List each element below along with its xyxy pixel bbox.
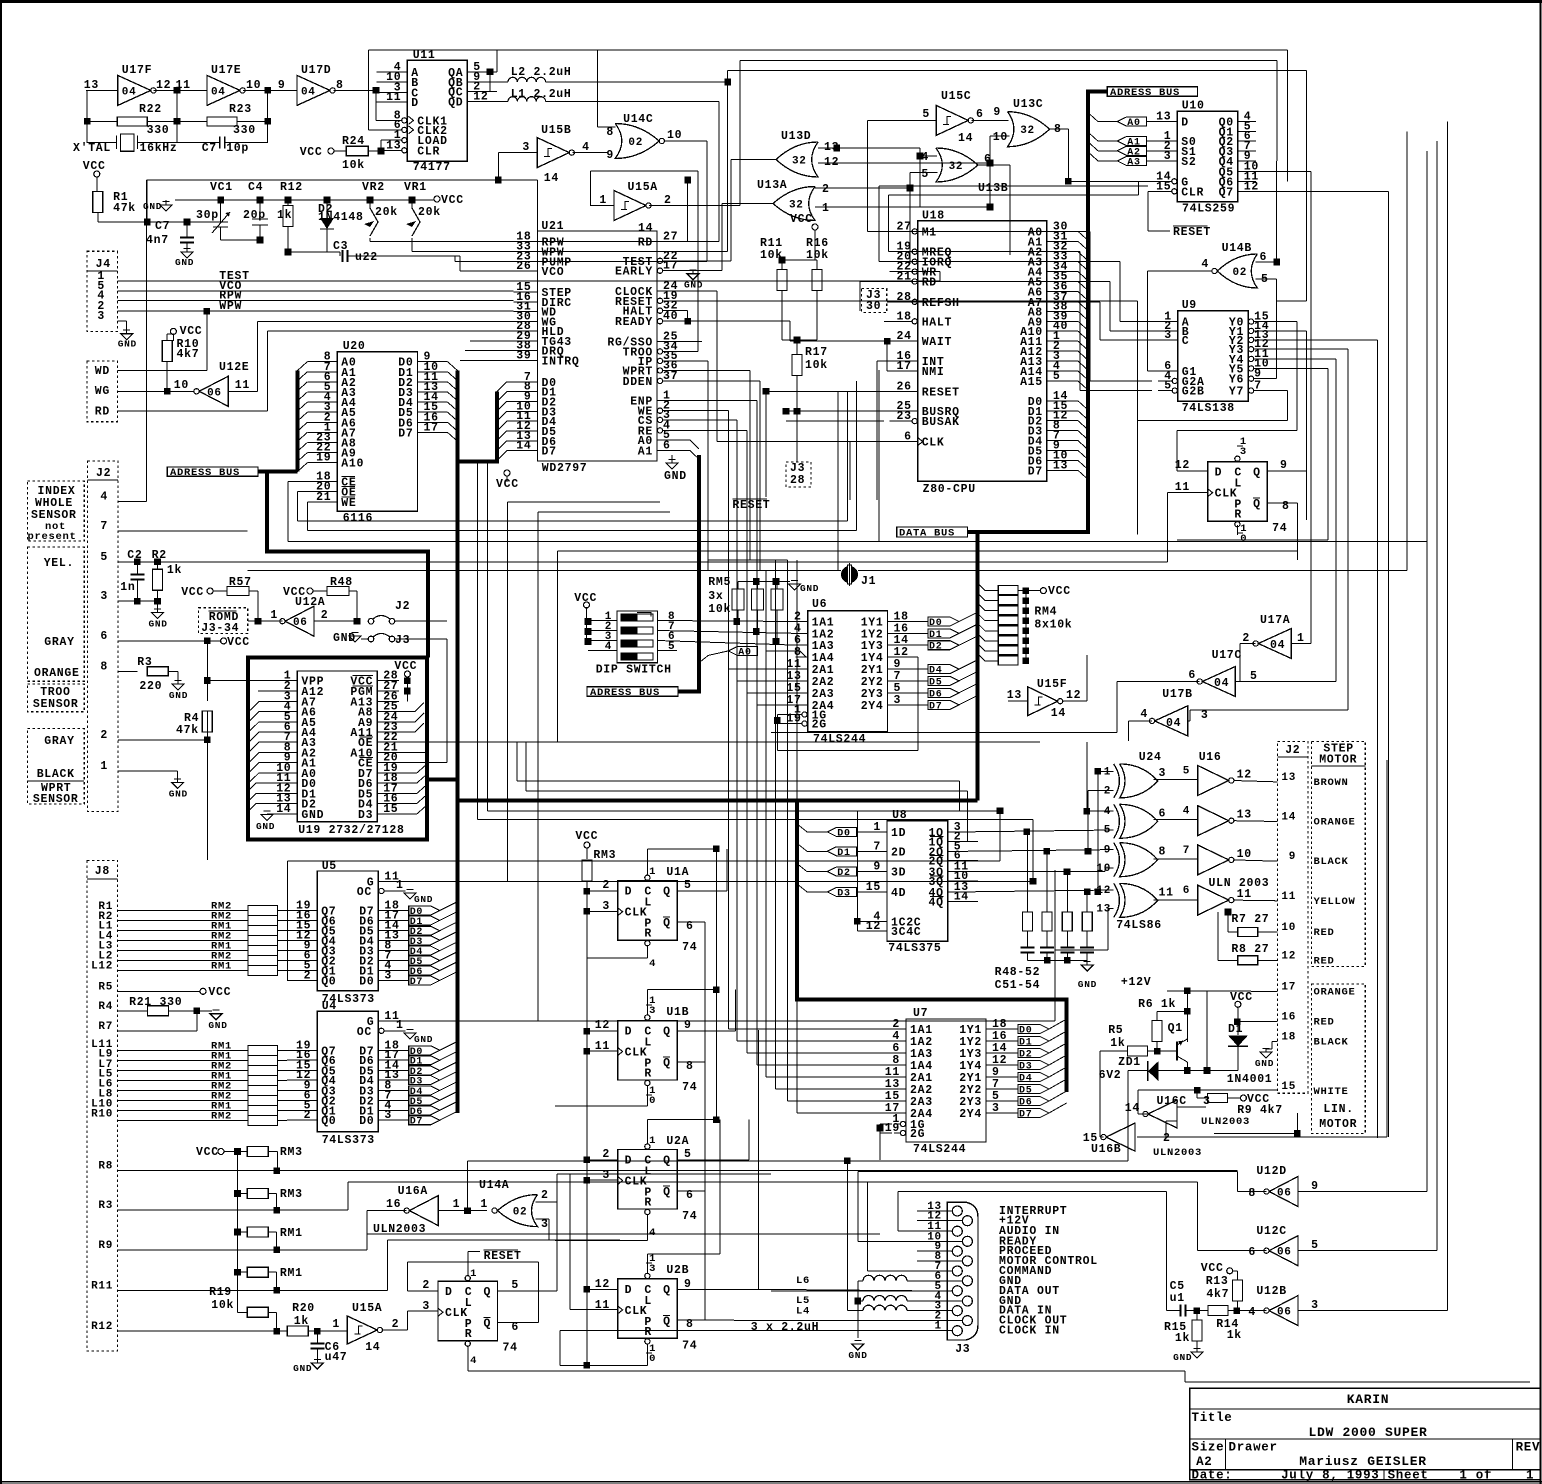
svg-text:D0: D0 bbox=[929, 618, 942, 629]
svg-text:U17E: U17E bbox=[211, 64, 241, 77]
svg-text:Title: Title bbox=[1192, 1411, 1233, 1425]
svg-text:+12V: +12V bbox=[1121, 976, 1151, 989]
svg-text:U12D: U12D bbox=[1256, 1165, 1286, 1178]
svg-text:u22: u22 bbox=[355, 251, 378, 264]
svg-text:D5: D5 bbox=[1019, 1086, 1032, 1097]
svg-text:R: R bbox=[644, 1197, 652, 1210]
svg-text:VCC: VCC bbox=[180, 325, 203, 338]
svg-text:G2B: G2B bbox=[1182, 386, 1205, 399]
svg-text:3x: 3x bbox=[708, 590, 723, 603]
svg-text:02: 02 bbox=[513, 1207, 528, 1219]
svg-text:5: 5 bbox=[668, 641, 675, 653]
svg-text:U13A: U13A bbox=[757, 179, 787, 192]
svg-text:GND: GND bbox=[208, 1020, 227, 1031]
svg-text:2: 2 bbox=[541, 1189, 549, 1202]
svg-text:GND: GND bbox=[301, 809, 324, 822]
svg-text:RD: RD bbox=[95, 406, 110, 419]
svg-text:U5: U5 bbox=[322, 860, 337, 873]
svg-text:3: 3 bbox=[649, 1263, 656, 1275]
svg-text:10k: 10k bbox=[708, 603, 731, 616]
svg-text:5: 5 bbox=[1164, 380, 1172, 393]
svg-text:D0: D0 bbox=[359, 1115, 374, 1128]
svg-text:U16C: U16C bbox=[1157, 1095, 1187, 1108]
svg-text:GND: GND bbox=[664, 470, 687, 483]
svg-text:ORANGE: ORANGE bbox=[1314, 817, 1356, 829]
svg-text:WE: WE bbox=[341, 497, 356, 510]
svg-text:06: 06 bbox=[1277, 1247, 1292, 1259]
svg-text:D1: D1 bbox=[1019, 1038, 1032, 1049]
svg-text:July 8, 1993: July 8, 1993 bbox=[1281, 1469, 1379, 1483]
svg-text:13: 13 bbox=[1237, 809, 1252, 822]
svg-text:R19: R19 bbox=[209, 1286, 232, 1299]
svg-text:8: 8 bbox=[1282, 500, 1290, 513]
svg-text:18: 18 bbox=[1281, 1032, 1296, 1044]
svg-text:Drawer: Drawer bbox=[1229, 1441, 1278, 1455]
svg-text:GRAY: GRAY bbox=[44, 735, 74, 748]
svg-text:26: 26 bbox=[896, 380, 911, 393]
svg-text:11: 11 bbox=[386, 91, 401, 104]
svg-text:GND: GND bbox=[800, 583, 819, 594]
svg-text:R21 330: R21 330 bbox=[129, 996, 182, 1009]
svg-text:3C4C: 3C4C bbox=[891, 926, 921, 939]
svg-text:L12: L12 bbox=[91, 960, 113, 972]
svg-text:04: 04 bbox=[1166, 717, 1181, 730]
svg-text:1k: 1k bbox=[1110, 1037, 1125, 1050]
svg-text:D: D bbox=[1181, 117, 1189, 130]
svg-text:Q: Q bbox=[663, 917, 671, 930]
svg-text:10: 10 bbox=[1237, 848, 1252, 861]
svg-text:READY: READY bbox=[615, 316, 653, 329]
svg-text:DDEN: DDEN bbox=[623, 376, 653, 389]
svg-text:23: 23 bbox=[896, 410, 911, 423]
svg-text:U15A: U15A bbox=[628, 181, 658, 194]
svg-text:RM1: RM1 bbox=[280, 1267, 303, 1280]
svg-text:74LS86: 74LS86 bbox=[1116, 919, 1162, 932]
svg-text:J3: J3 bbox=[395, 634, 410, 647]
svg-text:D5: D5 bbox=[929, 677, 942, 688]
svg-text:3: 3 bbox=[1201, 709, 1209, 722]
svg-text:7: 7 bbox=[1183, 845, 1190, 857]
svg-text:15: 15 bbox=[1083, 1132, 1098, 1145]
svg-text:MOTOR: MOTOR bbox=[1319, 1118, 1357, 1131]
svg-text:2: 2 bbox=[422, 1279, 430, 1292]
svg-text:U15C: U15C bbox=[941, 90, 971, 103]
svg-text:14: 14 bbox=[638, 222, 653, 235]
svg-text:L1 2.2uH: L1 2.2uH bbox=[511, 88, 572, 101]
svg-text:R9: R9 bbox=[98, 1240, 113, 1252]
svg-text:74: 74 bbox=[1272, 522, 1287, 535]
svg-text:ULN 2003: ULN 2003 bbox=[1209, 877, 1270, 890]
svg-text:RM3: RM3 bbox=[280, 1146, 303, 1159]
svg-text:GND: GND bbox=[149, 619, 168, 630]
svg-text:4: 4 bbox=[470, 1355, 477, 1367]
svg-text:6: 6 bbox=[1248, 1246, 1256, 1259]
svg-text:J8: J8 bbox=[95, 865, 110, 878]
svg-text:U24: U24 bbox=[1139, 751, 1162, 764]
svg-text:D: D bbox=[1215, 467, 1223, 480]
svg-text:A10: A10 bbox=[341, 458, 364, 471]
svg-text:R8 27: R8 27 bbox=[1231, 943, 1269, 956]
svg-text:4: 4 bbox=[582, 141, 590, 154]
svg-text:R13: R13 bbox=[1206, 1275, 1229, 1288]
svg-text:U1A: U1A bbox=[666, 866, 689, 879]
svg-text:WD: WD bbox=[95, 365, 110, 378]
svg-text:BLACK: BLACK bbox=[1314, 1037, 1349, 1049]
svg-text:Q: Q bbox=[663, 1026, 671, 1039]
svg-text:J1: J1 bbox=[861, 575, 876, 588]
svg-text:1: 1 bbox=[1104, 766, 1111, 778]
svg-text:15: 15 bbox=[1156, 180, 1171, 193]
svg-text:06: 06 bbox=[1277, 1307, 1292, 1319]
svg-text:6: 6 bbox=[1159, 807, 1167, 820]
svg-text:8: 8 bbox=[1248, 1187, 1256, 1200]
svg-text:Q0: Q0 bbox=[321, 1115, 336, 1128]
svg-text:Mariusz GEISLER: Mariusz GEISLER bbox=[1299, 1454, 1427, 1469]
svg-text:13: 13 bbox=[1096, 904, 1111, 916]
svg-text:u47: u47 bbox=[325, 1351, 348, 1364]
svg-text:4n7: 4n7 bbox=[146, 234, 169, 247]
svg-text:U2B: U2B bbox=[666, 1264, 689, 1277]
svg-text:0: 0 bbox=[649, 1353, 656, 1365]
svg-text:10: 10 bbox=[174, 379, 189, 392]
svg-text:3: 3 bbox=[522, 141, 530, 154]
svg-text:GND: GND bbox=[414, 1034, 433, 1045]
svg-text:4: 4 bbox=[649, 958, 656, 970]
svg-text:5: 5 bbox=[1311, 1239, 1319, 1252]
svg-text:D1: D1 bbox=[929, 630, 942, 641]
svg-text:CLR: CLR bbox=[1181, 186, 1204, 199]
svg-text:OC: OC bbox=[357, 1026, 372, 1039]
svg-text:VCC: VCC bbox=[227, 636, 250, 649]
svg-text:16kHz: 16kHz bbox=[140, 142, 178, 155]
svg-text:RD: RD bbox=[922, 277, 937, 290]
svg-text:04: 04 bbox=[211, 86, 226, 98]
svg-text:15: 15 bbox=[1281, 1081, 1296, 1093]
svg-text:330: 330 bbox=[233, 124, 256, 137]
svg-text:D7: D7 bbox=[410, 1117, 423, 1128]
svg-text:39: 39 bbox=[516, 350, 531, 363]
svg-text:D3: D3 bbox=[1019, 1062, 1032, 1073]
svg-text:4: 4 bbox=[1201, 258, 1209, 271]
svg-text:R6 1k: R6 1k bbox=[1138, 998, 1176, 1011]
svg-text:GRAY: GRAY bbox=[44, 636, 74, 649]
svg-text:REV: REV bbox=[1516, 1441, 1541, 1455]
svg-text:3: 3 bbox=[1159, 767, 1167, 780]
svg-text:06: 06 bbox=[293, 617, 308, 629]
svg-text:U19 2732/27128: U19 2732/27128 bbox=[298, 824, 404, 837]
svg-text:ULN2003: ULN2003 bbox=[1201, 1116, 1250, 1128]
svg-text:04: 04 bbox=[122, 86, 137, 98]
svg-text:3: 3 bbox=[1203, 1095, 1211, 1108]
svg-text:12: 12 bbox=[1237, 769, 1252, 782]
svg-text:R3: R3 bbox=[98, 1200, 113, 1212]
svg-text:74LS375: 74LS375 bbox=[888, 942, 941, 955]
svg-text:GND: GND bbox=[1255, 1058, 1274, 1069]
svg-text:6: 6 bbox=[1188, 669, 1196, 682]
svg-text:2: 2 bbox=[304, 1109, 312, 1122]
svg-text:SENSOR: SENSOR bbox=[33, 793, 79, 806]
svg-text:R11: R11 bbox=[91, 1280, 113, 1292]
svg-text:RED: RED bbox=[1314, 927, 1335, 939]
svg-text:8: 8 bbox=[1159, 846, 1167, 859]
svg-text:A0: A0 bbox=[1127, 118, 1140, 129]
svg-text:D7: D7 bbox=[542, 446, 557, 459]
svg-text:1: 1 bbox=[270, 609, 278, 622]
svg-text:26: 26 bbox=[516, 260, 531, 273]
svg-text:12: 12 bbox=[1175, 459, 1190, 472]
svg-text:1: 1 bbox=[934, 1321, 941, 1333]
svg-text:10k: 10k bbox=[342, 159, 365, 172]
svg-text:1D: 1D bbox=[891, 827, 906, 840]
svg-text:Size: Size bbox=[1192, 1441, 1225, 1455]
svg-text:5: 5 bbox=[922, 108, 930, 121]
svg-text:M1: M1 bbox=[922, 226, 937, 239]
svg-text:VCC: VCC bbox=[181, 586, 204, 599]
svg-text:9: 9 bbox=[1104, 845, 1111, 857]
svg-text:1: 1 bbox=[332, 1318, 340, 1331]
svg-text:12: 12 bbox=[1066, 689, 1081, 702]
svg-text:RESET: RESET bbox=[484, 1250, 522, 1263]
svg-text:U4: U4 bbox=[322, 1000, 337, 1013]
svg-text:U10: U10 bbox=[1182, 100, 1205, 113]
svg-text:6116: 6116 bbox=[343, 512, 373, 525]
svg-text:5: 5 bbox=[1183, 766, 1190, 778]
svg-text:3: 3 bbox=[100, 590, 108, 603]
svg-text:U17A: U17A bbox=[1260, 614, 1290, 627]
svg-text:VCC: VCC bbox=[196, 1146, 219, 1159]
svg-text:VCC: VCC bbox=[575, 830, 598, 843]
svg-text:U18: U18 bbox=[922, 210, 945, 223]
svg-text:R7 27: R7 27 bbox=[1231, 913, 1269, 926]
svg-text:R17: R17 bbox=[805, 346, 828, 359]
svg-text:16: 16 bbox=[1281, 1012, 1296, 1024]
svg-text:8: 8 bbox=[606, 126, 614, 139]
svg-text:74: 74 bbox=[682, 1081, 697, 1094]
svg-text:15: 15 bbox=[383, 803, 398, 816]
svg-text:D3: D3 bbox=[358, 809, 373, 822]
svg-text:19: 19 bbox=[316, 452, 331, 465]
svg-text:14: 14 bbox=[958, 132, 973, 145]
svg-text:R: R bbox=[644, 928, 652, 941]
svg-text:EARLY: EARLY bbox=[615, 266, 653, 279]
svg-text:VR2: VR2 bbox=[362, 181, 385, 194]
svg-text:WG: WG bbox=[95, 385, 110, 398]
svg-text:11: 11 bbox=[1237, 888, 1252, 901]
svg-text:32: 32 bbox=[1020, 125, 1035, 137]
svg-text:R8: R8 bbox=[98, 1161, 113, 1173]
svg-text:10: 10 bbox=[1281, 922, 1296, 934]
svg-text:U12E: U12E bbox=[219, 361, 249, 374]
svg-text:4: 4 bbox=[1140, 708, 1148, 721]
svg-text:Q: Q bbox=[663, 1315, 671, 1328]
svg-text:4: 4 bbox=[100, 491, 108, 504]
svg-text:L6: L6 bbox=[796, 1275, 810, 1287]
svg-text:Q7: Q7 bbox=[1219, 186, 1234, 199]
svg-text:0: 0 bbox=[1240, 533, 1247, 545]
svg-text:DATA BUS: DATA BUS bbox=[899, 528, 955, 540]
svg-text:BLACK: BLACK bbox=[1314, 856, 1349, 868]
svg-text:5: 5 bbox=[684, 879, 692, 892]
svg-text:3: 3 bbox=[992, 1102, 1000, 1115]
svg-text:VC1: VC1 bbox=[210, 181, 233, 194]
svg-text:WD2797: WD2797 bbox=[542, 462, 588, 475]
svg-text:C7: C7 bbox=[202, 142, 217, 155]
svg-text:U14C: U14C bbox=[623, 113, 653, 126]
svg-text:U14A: U14A bbox=[479, 1179, 509, 1192]
svg-text:13: 13 bbox=[1281, 772, 1296, 784]
svg-text:J2: J2 bbox=[96, 467, 111, 480]
svg-text:12: 12 bbox=[595, 1019, 610, 1032]
svg-text:GND: GND bbox=[1173, 1352, 1192, 1363]
svg-text:U20: U20 bbox=[343, 340, 366, 353]
svg-text:Q: Q bbox=[1253, 467, 1261, 480]
svg-text:D: D bbox=[445, 1286, 453, 1299]
svg-text:16: 16 bbox=[386, 1198, 401, 1211]
svg-text:GND: GND bbox=[175, 257, 194, 268]
svg-text:C7: C7 bbox=[155, 220, 170, 233]
svg-text:WHITE: WHITE bbox=[1314, 1086, 1349, 1098]
svg-text:RED: RED bbox=[1314, 955, 1335, 967]
svg-text:C3: C3 bbox=[333, 240, 348, 253]
svg-text:D3: D3 bbox=[837, 888, 850, 899]
svg-text:14: 14 bbox=[276, 803, 291, 816]
svg-text:1: 1 bbox=[480, 1198, 488, 1211]
svg-text:GND: GND bbox=[684, 280, 703, 291]
svg-text:VCC: VCC bbox=[1048, 585, 1071, 598]
svg-text:3: 3 bbox=[422, 1300, 430, 1313]
svg-text:10k: 10k bbox=[211, 1299, 234, 1312]
svg-text:R5: R5 bbox=[98, 981, 113, 993]
svg-text:J2: J2 bbox=[1285, 744, 1300, 757]
svg-text:2G: 2G bbox=[910, 1128, 925, 1141]
svg-text:D: D bbox=[625, 1026, 633, 1039]
svg-text:10k: 10k bbox=[805, 359, 828, 372]
svg-text:ULN2003: ULN2003 bbox=[1153, 1147, 1202, 1159]
svg-text:1: 1 bbox=[1526, 1469, 1534, 1483]
svg-text:3: 3 bbox=[97, 310, 105, 323]
svg-text:J2: J2 bbox=[395, 600, 410, 613]
svg-text:2: 2 bbox=[1104, 786, 1111, 798]
svg-text:D7: D7 bbox=[398, 427, 413, 440]
svg-text:VCC: VCC bbox=[574, 592, 597, 605]
svg-text:J3-34: J3-34 bbox=[201, 622, 239, 635]
svg-text:15: 15 bbox=[866, 881, 881, 894]
svg-text:74: 74 bbox=[682, 1339, 697, 1352]
svg-text:R22: R22 bbox=[139, 103, 162, 116]
svg-text:Q: Q bbox=[663, 1155, 671, 1168]
svg-text:D7: D7 bbox=[410, 977, 423, 988]
svg-text:C4: C4 bbox=[248, 181, 263, 194]
svg-text:A2: A2 bbox=[1196, 1455, 1212, 1469]
svg-text:D7: D7 bbox=[1028, 465, 1043, 478]
svg-text:2: 2 bbox=[392, 1318, 400, 1331]
svg-text:CLK: CLK bbox=[922, 437, 945, 450]
svg-text:4Q: 4Q bbox=[928, 896, 943, 909]
svg-text:A3: A3 bbox=[1127, 157, 1140, 168]
svg-text:R5: R5 bbox=[1108, 1024, 1123, 1037]
svg-text:D4: D4 bbox=[1019, 1074, 1032, 1085]
svg-text:D6: D6 bbox=[929, 689, 942, 700]
svg-text:11: 11 bbox=[1281, 891, 1296, 903]
svg-text:D7: D7 bbox=[1019, 1110, 1032, 1121]
svg-text:R: R bbox=[644, 1068, 652, 1081]
svg-text:GND: GND bbox=[1078, 979, 1097, 990]
svg-text:2: 2 bbox=[100, 729, 108, 742]
svg-text:8: 8 bbox=[100, 660, 108, 673]
svg-text:S2: S2 bbox=[1181, 156, 1196, 169]
svg-text:ORANGE: ORANGE bbox=[34, 667, 80, 680]
svg-text:BROWN: BROWN bbox=[1314, 777, 1349, 789]
svg-text:GND: GND bbox=[169, 690, 188, 701]
svg-text:R10: R10 bbox=[91, 1108, 113, 1120]
svg-text:R: R bbox=[644, 1326, 652, 1339]
svg-text:C51-54: C51-54 bbox=[995, 979, 1041, 992]
svg-text:28: 28 bbox=[790, 474, 805, 487]
svg-text:U11: U11 bbox=[413, 49, 436, 62]
svg-text:VCC: VCC bbox=[441, 194, 464, 207]
svg-text:6: 6 bbox=[1183, 885, 1190, 897]
svg-text:4: 4 bbox=[605, 641, 612, 653]
svg-text:10: 10 bbox=[993, 131, 1008, 144]
svg-text:17: 17 bbox=[424, 421, 439, 434]
svg-text:2: 2 bbox=[822, 183, 830, 196]
svg-text:1k: 1k bbox=[1227, 1329, 1242, 1342]
svg-text:L4: L4 bbox=[796, 1306, 810, 1318]
svg-text:D: D bbox=[411, 97, 419, 110]
svg-text:ADRESS BUS: ADRESS BUS bbox=[170, 467, 240, 479]
svg-text:VCC: VCC bbox=[208, 986, 231, 999]
svg-text:2: 2 bbox=[304, 969, 312, 982]
svg-text:5: 5 bbox=[100, 551, 108, 564]
svg-text:U16: U16 bbox=[1199, 751, 1222, 764]
svg-text:10: 10 bbox=[667, 129, 682, 142]
svg-text:14: 14 bbox=[1281, 812, 1296, 824]
svg-text:R12: R12 bbox=[91, 1321, 113, 1333]
svg-text:14: 14 bbox=[516, 440, 531, 453]
svg-text:D: D bbox=[625, 1155, 633, 1168]
svg-text:1: 1 bbox=[873, 821, 881, 834]
svg-text:5: 5 bbox=[1104, 825, 1111, 837]
svg-text:SENSOR: SENSOR bbox=[33, 698, 79, 711]
svg-text:5: 5 bbox=[1053, 370, 1061, 383]
svg-text:R48-52: R48-52 bbox=[995, 966, 1041, 979]
svg-text:U15A: U15A bbox=[352, 1302, 382, 1315]
svg-text:R24: R24 bbox=[342, 135, 365, 148]
svg-text:11: 11 bbox=[1175, 481, 1190, 494]
svg-text:47k: 47k bbox=[176, 724, 199, 737]
svg-text:D2: D2 bbox=[929, 642, 942, 653]
svg-text:D0: D0 bbox=[359, 975, 374, 988]
svg-text:24: 24 bbox=[896, 330, 911, 343]
svg-text:4: 4 bbox=[1104, 806, 1111, 818]
svg-text:D2: D2 bbox=[1019, 1050, 1032, 1061]
svg-text:U6: U6 bbox=[812, 598, 827, 611]
svg-text:R9 4k7: R9 4k7 bbox=[1237, 1104, 1283, 1117]
svg-text:3: 3 bbox=[541, 1218, 549, 1231]
svg-text:YELLOW: YELLOW bbox=[1314, 896, 1356, 908]
svg-text:9: 9 bbox=[873, 861, 881, 874]
svg-text:D7: D7 bbox=[929, 701, 942, 712]
svg-text:U1B: U1B bbox=[666, 1006, 689, 1019]
svg-text:KARIN: KARIN bbox=[1347, 1392, 1390, 1407]
svg-text:4k7: 4k7 bbox=[1206, 1288, 1229, 1301]
svg-text:3 x 2.2uH: 3 x 2.2uH bbox=[751, 1321, 819, 1334]
svg-text:YEL.: YEL. bbox=[44, 557, 74, 570]
svg-text:1k: 1k bbox=[1175, 1332, 1190, 1345]
svg-text:4: 4 bbox=[1183, 806, 1190, 818]
svg-text:GND: GND bbox=[848, 1350, 867, 1361]
svg-text:RD: RD bbox=[638, 237, 653, 250]
